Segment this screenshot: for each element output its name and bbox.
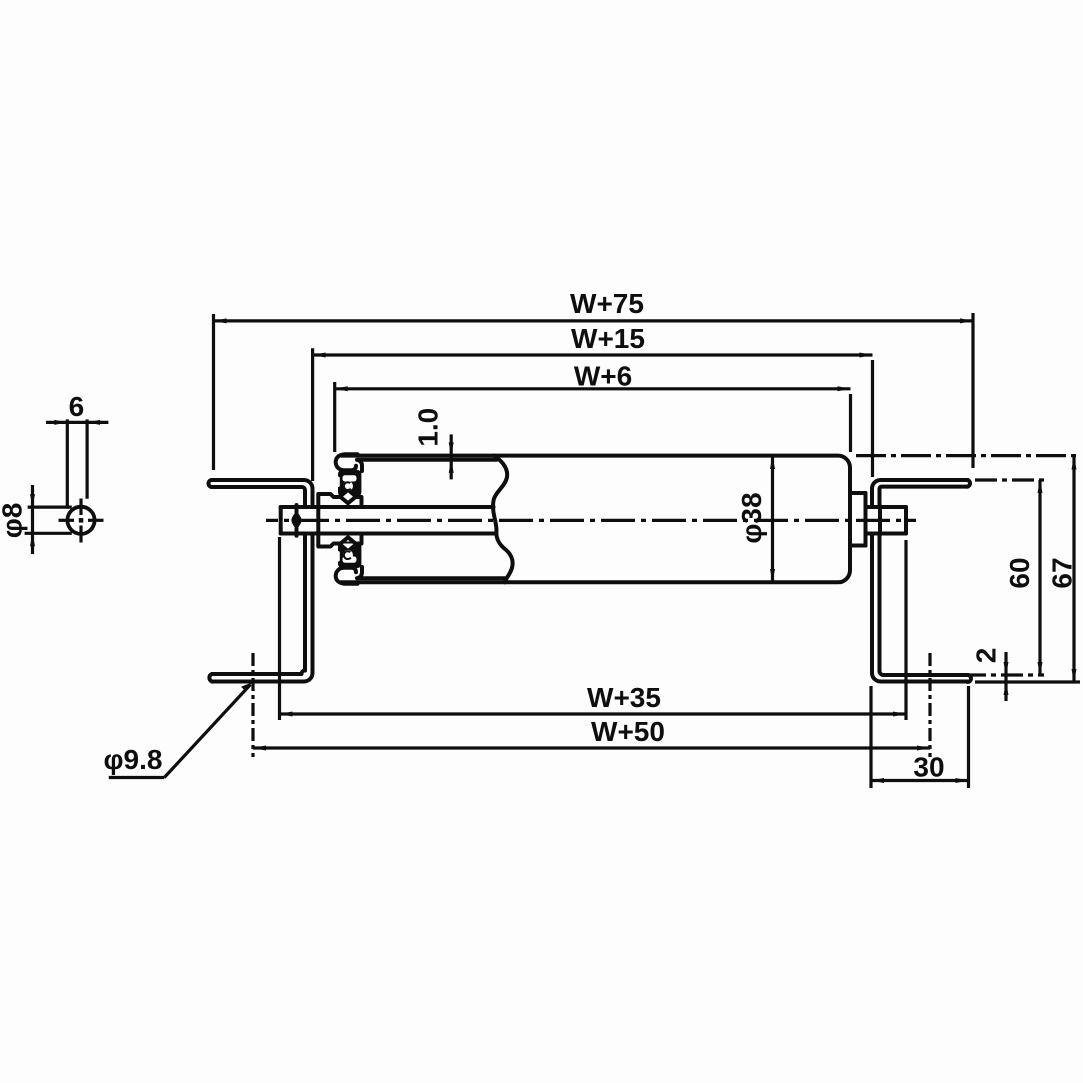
svg-text:φ9.8: φ9.8: [104, 744, 163, 775]
dimension 30: [871, 686, 969, 788]
shaft end detail view: dimension phi8: [0, 485, 72, 554]
dimension 2 flange thickness: [971, 648, 1009, 701]
svg-text:φ38: φ38: [736, 492, 767, 543]
dimension W+75: [214, 288, 974, 470]
rail top chain continuation: [975, 478, 1047, 481]
left frame rail: [209, 480, 313, 682]
tube break curve: [493, 456, 513, 583]
left bearing top: [318, 454, 362, 507]
svg-text:6: 6: [69, 391, 85, 422]
shaft end detail view: dimension 6: [46, 391, 108, 509]
dimension W+6: [335, 360, 851, 452]
svg-text:W+50: W+50: [591, 716, 665, 747]
svg-text:W+75: W+75: [570, 288, 644, 319]
tube inner wall lines: [358, 458, 497, 462]
svg-text:φ8: φ8: [0, 503, 28, 539]
dimension 60: [1004, 480, 1043, 675]
phi9.8 hole leader: [104, 682, 253, 777]
phi38 diameter dimension: [736, 456, 775, 582]
svg-text:30: 30: [913, 752, 944, 783]
svg-text:1.0: 1.0: [413, 408, 444, 447]
roller tube outline: [341, 456, 850, 583]
right frame rail: [872, 480, 971, 682]
right end cap hub: [851, 493, 866, 546]
dimension W+50: [253, 653, 930, 757]
shaft end detail view: circle: [59, 499, 104, 543]
dimension 1.0 wall thickness: [413, 408, 454, 480]
svg-text:60: 60: [1004, 557, 1035, 588]
rail bottom inner chain line: [890, 673, 1044, 676]
dimension W+35: [280, 537, 907, 720]
svg-text:W+15: W+15: [571, 323, 645, 354]
dimension 67: [1047, 457, 1078, 683]
svg-text:W+35: W+35: [587, 682, 661, 713]
svg-text:67: 67: [1047, 557, 1078, 588]
shaft: [281, 506, 906, 535]
main centerline: [266, 519, 916, 522]
spring pin: [291, 505, 301, 536]
svg-text:W+6: W+6: [574, 360, 632, 391]
svg-text:2: 2: [971, 648, 1002, 664]
left bearing bottom: [318, 534, 362, 584]
flange bottom extension line: [975, 680, 1080, 683]
roller top reference chain line: [856, 454, 1081, 457]
dimension W+15: [313, 323, 873, 481]
